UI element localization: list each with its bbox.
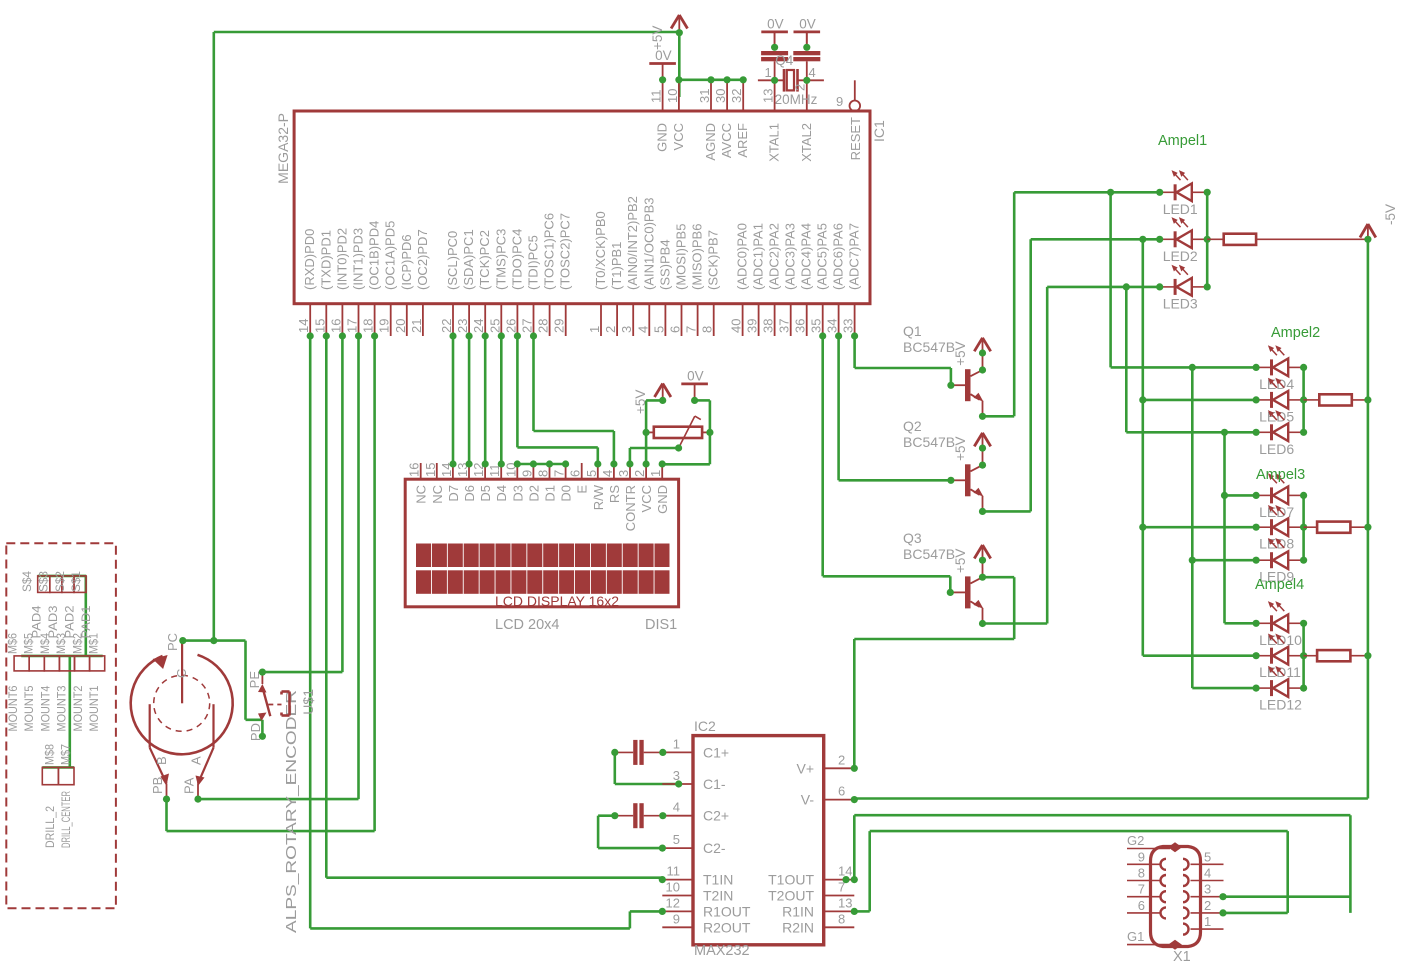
svg-text:D6: D6 [462,485,477,502]
svg-text:MOUNT2: MOUNT2 [73,686,85,732]
svg-text:(OC2)PD7: (OC2)PD7 [415,229,430,290]
svg-text:(T1)PB1: (T1)PB1 [609,242,624,290]
svg-text:(TCK)PC2: (TCK)PC2 [477,230,492,290]
svg-text:1: 1 [587,326,602,333]
svg-text:21: 21 [409,319,424,333]
svg-text:D7: D7 [446,485,461,502]
svg-text:CONTR: CONTR [623,485,638,531]
svg-text:9: 9 [673,911,680,926]
svg-text:C1+: C1+ [703,744,729,760]
svg-text:2: 2 [603,326,618,333]
svg-text:GND: GND [655,485,670,514]
svg-text:LED3: LED3 [1163,295,1198,311]
svg-text:D1: D1 [543,485,558,502]
svg-text:PC: PC [165,633,180,651]
svg-text:1: 1 [648,470,663,477]
svg-text:0V: 0V [799,16,816,31]
svg-text:25: 25 [487,319,502,333]
svg-text:T1OUT: T1OUT [768,872,814,888]
svg-text:27: 27 [520,319,535,333]
svg-text:2: 2 [793,84,808,91]
svg-text:RS: RS [607,485,622,503]
svg-text:(ADC0)PA0: (ADC0)PA0 [735,223,750,290]
svg-text:R2OUT: R2OUT [703,919,751,935]
svg-text:+5V: +5V [953,436,968,460]
svg-text:37: 37 [777,319,792,333]
svg-text:(ADC7)PA7: (ADC7)PA7 [847,223,862,290]
svg-text:MOUNT4: MOUNT4 [40,685,52,732]
svg-text:11: 11 [667,864,681,879]
svg-text:M$2: M$2 [72,633,84,654]
svg-text:Q2: Q2 [903,418,922,434]
svg-text:(TDI)PC5: (TDI)PC5 [526,235,541,290]
svg-text:DIS1: DIS1 [645,617,677,633]
svg-text:17: 17 [345,319,360,333]
svg-text:1: 1 [765,65,772,80]
svg-text:(SDA)PC1: (SDA)PC1 [461,229,476,290]
svg-text:16: 16 [407,463,422,477]
svg-text:20: 20 [393,319,408,333]
svg-text:XTAL1: XTAL1 [767,123,782,162]
svg-text:G1: G1 [1127,929,1144,944]
svg-text:NC: NC [414,485,429,504]
svg-text:B: B [154,756,169,765]
svg-text:(RXD)PD0: (RXD)PD0 [302,229,317,290]
svg-text:DRILL_CENTER: DRILL_CENTER [61,791,73,848]
svg-text:LED2: LED2 [1163,248,1198,264]
svg-text:Q1: Q1 [903,323,922,339]
svg-text:9: 9 [1138,849,1145,864]
svg-text:4: 4 [673,800,680,815]
svg-text:BC547B: BC547B [903,434,955,450]
svg-text:22: 22 [439,319,454,333]
svg-text:6: 6 [668,326,683,333]
svg-text:U$1: U$1 [300,689,316,715]
svg-text:R1IN: R1IN [782,903,814,919]
svg-text:+5V: +5V [953,549,968,573]
svg-text:14: 14 [296,319,311,333]
svg-text:(MOSI)PB5: (MOSI)PB5 [674,224,689,290]
svg-text:G2: G2 [1127,833,1144,848]
svg-text:(TOSC1)PC6: (TOSC1)PC6 [542,213,557,290]
svg-text:Q3: Q3 [903,530,922,546]
svg-text:(OC1A)PD5: (OC1A)PD5 [383,221,398,290]
svg-text:V-: V- [801,792,815,808]
svg-text:4: 4 [635,326,650,333]
svg-text:D3: D3 [510,485,525,502]
svg-text:C2+: C2+ [703,808,729,824]
svg-text:6: 6 [1138,898,1145,913]
svg-text:(TXD)PD1: (TXD)PD1 [318,230,333,290]
svg-text:28: 28 [536,319,551,333]
svg-text:R1OUT: R1OUT [703,903,751,919]
svg-text:S$3: S$3 [38,571,50,592]
svg-text:Q4: Q4 [775,53,794,68]
svg-text:13: 13 [838,895,852,910]
svg-text:8: 8 [1138,866,1145,881]
svg-text:19: 19 [377,319,392,333]
svg-text:(AIN1/OC0)PB3: (AIN1/OC0)PB3 [641,198,656,290]
svg-text:NC: NC [430,485,445,504]
svg-text:30: 30 [713,89,728,103]
svg-text:PA: PA [182,777,197,794]
svg-text:20MHz: 20MHz [775,92,818,107]
svg-text:26: 26 [503,319,518,333]
svg-text:38: 38 [761,319,776,333]
svg-text:(T0/XCK)PB0: (T0/XCK)PB0 [593,211,608,290]
svg-text:GND: GND [655,123,670,152]
svg-text:M$1: M$1 [89,633,101,654]
svg-text:MOUNT3: MOUNT3 [57,686,69,732]
svg-text:D4: D4 [494,485,509,502]
svg-text:VCC: VCC [639,485,654,512]
svg-text:LCD DISPLAY 16x2: LCD DISPLAY 16x2 [495,593,619,609]
svg-text:LCD 20x4: LCD 20x4 [495,617,559,633]
svg-text:18: 18 [361,319,376,333]
svg-text:(ADC6)PA6: (ADC6)PA6 [831,223,846,290]
svg-text:32: 32 [729,89,744,103]
svg-text:M$5: M$5 [24,633,36,654]
svg-text:15: 15 [312,319,327,333]
svg-text:1: 1 [673,736,680,751]
svg-text:Ampel3: Ampel3 [1256,467,1305,483]
svg-text:IC1: IC1 [871,120,887,142]
svg-text:35: 35 [809,319,824,333]
svg-text:13: 13 [761,89,776,103]
svg-text:PB: PB [150,777,165,794]
svg-text:ALPS_ROTARY_ENCODER: ALPS_ROTARY_ENCODER [284,690,300,933]
svg-text:(INT0)PD2: (INT0)PD2 [334,228,349,290]
svg-text:VCC: VCC [671,123,686,150]
svg-text:(OC1B)PD4: (OC1B)PD4 [367,221,382,290]
svg-text:7: 7 [684,326,699,333]
svg-text:+5V: +5V [650,26,665,50]
svg-text:RESET: RESET [848,117,863,160]
svg-text:8: 8 [838,911,845,926]
svg-text:5: 5 [651,326,666,333]
svg-text:8: 8 [700,326,715,333]
svg-text:2: 2 [632,470,647,477]
svg-text:MAX232: MAX232 [694,943,750,959]
svg-text:V+: V+ [796,760,814,776]
svg-text:0V: 0V [767,16,784,31]
svg-text:3: 3 [616,470,631,477]
svg-text:A: A [189,756,204,765]
svg-text:(ADC2)PA2: (ADC2)PA2 [767,223,782,290]
svg-text:+5V: +5V [953,341,968,365]
svg-text:11: 11 [649,90,664,104]
svg-text:T2IN: T2IN [703,888,733,904]
svg-text:8: 8 [536,470,551,477]
svg-text:D0: D0 [559,485,574,502]
svg-text:DRILL_2: DRILL_2 [45,806,57,848]
svg-text:E: E [575,485,590,494]
svg-text:10: 10 [665,89,680,103]
svg-text:15: 15 [423,463,438,477]
svg-text:36: 36 [793,319,808,333]
svg-text:D2: D2 [526,485,541,502]
svg-text:2: 2 [1204,898,1211,913]
svg-text:(SCK)PB7: (SCK)PB7 [706,230,721,290]
svg-text:X1: X1 [1173,949,1191,965]
svg-text:33: 33 [841,319,856,333]
svg-text:(SS)PB4: (SS)PB4 [657,239,672,290]
svg-text:-5V: -5V [1383,204,1398,225]
svg-text:4: 4 [1204,866,1211,881]
svg-text:9: 9 [519,470,534,477]
svg-text:S$2: S$2 [55,571,67,592]
svg-text:IC2: IC2 [694,718,716,734]
svg-text:MOUNT5: MOUNT5 [24,686,36,732]
svg-text:R/W: R/W [591,484,606,510]
svg-text:12: 12 [666,895,680,910]
svg-text:31: 31 [697,89,712,103]
svg-text:M$4: M$4 [40,632,52,654]
svg-text:(TMS)PC3: (TMS)PC3 [493,229,508,290]
svg-text:BC547B: BC547B [903,546,955,562]
svg-text:AGND: AGND [703,123,718,161]
svg-text:AVCC: AVCC [719,123,734,158]
svg-text:LED1: LED1 [1163,201,1198,217]
svg-text:0V: 0V [687,368,704,383]
svg-text:(ADC1)PA1: (ADC1)PA1 [751,223,766,290]
svg-text:(ICP)PD6: (ICP)PD6 [399,234,414,290]
svg-text:5: 5 [584,470,599,477]
svg-text:Ampel1: Ampel1 [1158,133,1207,149]
svg-text:23: 23 [455,319,470,333]
svg-text:+5V: +5V [633,390,648,414]
svg-text:LED6: LED6 [1259,441,1294,457]
svg-text:D5: D5 [478,485,493,502]
svg-text:5: 5 [673,832,680,847]
svg-text:2: 2 [838,752,845,767]
svg-text:39: 39 [745,319,760,333]
svg-text:T2OUT: T2OUT [768,888,814,904]
svg-text:MOUNT1: MOUNT1 [89,686,101,732]
svg-text:AREF: AREF [735,123,750,158]
svg-text:XTAL2: XTAL2 [799,123,814,162]
svg-text:40: 40 [729,319,744,333]
svg-text:34: 34 [825,319,840,333]
svg-text:10: 10 [666,880,680,895]
svg-text:MOUNT6: MOUNT6 [8,686,20,732]
svg-text:LED8: LED8 [1259,536,1294,552]
svg-text:4: 4 [600,470,615,477]
svg-text:MEGA32-P: MEGA32-P [275,113,291,184]
svg-text:6: 6 [838,784,845,799]
svg-text:5: 5 [1204,849,1211,864]
svg-text:BC547B: BC547B [903,339,955,355]
svg-text:(INT1)PD3: (INT1)PD3 [351,228,366,290]
svg-text:24: 24 [471,319,486,333]
svg-text:Ampel4: Ampel4 [1255,577,1304,593]
svg-text:7: 7 [1138,882,1145,897]
svg-text:(ADC3)PA3: (ADC3)PA3 [783,223,798,290]
svg-text:(ADC5)PA5: (ADC5)PA5 [815,223,830,290]
svg-text:(TDO)PC4: (TDO)PC4 [509,229,524,290]
svg-text:9: 9 [836,94,843,109]
svg-text:C1-: C1- [703,776,726,792]
svg-text:(AIN0/INT2)PB2: (AIN0/INT2)PB2 [625,196,640,290]
svg-text:4: 4 [809,65,816,80]
svg-text:R2IN: R2IN [782,919,814,935]
svg-text:29: 29 [552,319,567,333]
svg-text:M$3: M$3 [56,633,68,654]
svg-text:(MISO)PB6: (MISO)PB6 [690,224,705,290]
svg-text:(ADC4)PA4: (ADC4)PA4 [799,223,814,290]
svg-text:M$8: M$8 [44,744,56,765]
svg-text:C2-: C2- [703,840,726,856]
svg-text:S$4: S$4 [22,570,34,592]
svg-text:16: 16 [328,319,343,333]
svg-text:M$6: M$6 [8,633,20,654]
svg-text:1: 1 [1204,914,1211,929]
svg-text:(SCL)PC0: (SCL)PC0 [445,231,460,290]
svg-text:C: C [174,669,189,678]
svg-text:3: 3 [619,326,634,333]
svg-text:LED12: LED12 [1259,697,1302,713]
svg-text:T1IN: T1IN [703,872,733,888]
svg-text:3: 3 [1204,882,1211,897]
svg-text:(TOSC2)PC7: (TOSC2)PC7 [558,213,573,290]
svg-text:M$7: M$7 [60,744,72,765]
svg-text:S$1: S$1 [71,571,83,592]
svg-text:6: 6 [568,470,583,477]
svg-text:Ampel2: Ampel2 [1271,325,1320,341]
svg-text:7: 7 [552,470,567,477]
